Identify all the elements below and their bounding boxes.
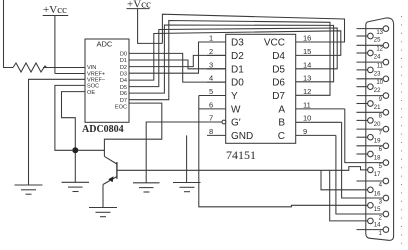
svg-text:4: 4 <box>209 74 213 83</box>
DB25 connector shell <box>366 18 394 240</box>
svg-text:D0: D0 <box>120 52 127 58</box>
wire EOC to transistor collector <box>104 103 161 156</box>
node junction dot <box>72 147 78 153</box>
wire D6 over top to 74151 pin13 <box>129 25 334 93</box>
pin16-9 stub lines <box>296 109 345 135</box>
svg-text:17: 17 <box>374 172 381 178</box>
transistor Q1 PNP <box>103 156 117 184</box>
svg-text:W: W <box>231 104 241 115</box>
svg-text:13: 13 <box>303 74 311 83</box>
svg-text:9: 9 <box>379 97 383 103</box>
svg-text:24: 24 <box>374 55 381 61</box>
svg-text:VREF+: VREF+ <box>87 71 105 77</box>
svg-text:9: 9 <box>303 127 307 136</box>
ground G4 <box>133 183 160 192</box>
svg-text:D2: D2 <box>120 65 127 71</box>
wire emitter to ground <box>102 185 104 208</box>
wire D2 to 74151 pin2 <box>129 55 226 66</box>
svg-text:1: 1 <box>209 34 213 43</box>
svg-text:SOC: SOC <box>87 84 99 90</box>
wire branch to connector pin16 <box>321 170 368 190</box>
wire B pin10 to connector pin3 <box>342 122 384 198</box>
svg-text:15: 15 <box>374 207 381 213</box>
svg-text:D6: D6 <box>272 78 285 89</box>
74151 left inside labels <box>231 38 253 142</box>
svg-text:+Vcc: +Vcc <box>127 0 151 11</box>
wire D1 to 74151 pin3 <box>129 60 226 69</box>
ground G3 <box>89 208 117 217</box>
connector pin leads short <box>357 29 384 230</box>
svg-text:A: A <box>278 104 285 115</box>
wire C pin9 to connector pin2 <box>336 135 383 214</box>
wire Vcc1 to VREF+ <box>55 73 85 75</box>
svg-text:25: 25 <box>374 38 381 44</box>
svg-text:11: 11 <box>303 100 311 109</box>
connector outer pin circles 13..1 <box>383 26 389 233</box>
svg-text:15: 15 <box>303 47 311 56</box>
svg-text:16: 16 <box>303 34 311 43</box>
svg-text:7: 7 <box>209 114 213 123</box>
svg-text:D1: D1 <box>231 64 244 75</box>
svg-text:D3: D3 <box>231 38 244 49</box>
svg-text:VIN: VIN <box>87 65 96 71</box>
svg-text:C: C <box>278 131 285 142</box>
svg-text:10: 10 <box>376 80 383 86</box>
wire resistor to VIN <box>43 67 85 69</box>
svg-text:D4: D4 <box>120 78 127 84</box>
svg-text:D1: D1 <box>120 58 127 64</box>
wire left-edge to resistor <box>4 0 14 68</box>
svg-text:6: 6 <box>209 100 213 109</box>
svg-text:1: 1 <box>379 231 383 237</box>
svg-text:D5: D5 <box>272 64 285 75</box>
svg-text:19: 19 <box>374 139 381 145</box>
svg-text:5: 5 <box>209 87 213 96</box>
+Vcc supply 1 <box>43 16 68 74</box>
svg-text:16: 16 <box>374 191 381 197</box>
svg-text:13: 13 <box>376 30 383 36</box>
svg-text:ADC: ADC <box>97 40 113 49</box>
wire G-bar pin7 to ground <box>146 122 223 183</box>
svg-text:VCC: VCC <box>264 38 285 49</box>
svg-text:22: 22 <box>374 88 381 94</box>
svg-text:G′: G′ <box>231 118 241 129</box>
svg-text:2: 2 <box>209 47 213 56</box>
wire D0 to 74151 pin4 <box>129 53 226 82</box>
svg-text:10: 10 <box>303 114 311 123</box>
svg-text:5: 5 <box>379 164 383 170</box>
svg-text:ADC0804: ADC0804 <box>82 124 124 135</box>
left pin numbers 1-8 <box>209 34 213 136</box>
wire SOC <box>55 85 85 150</box>
svg-text:GND: GND <box>231 131 253 142</box>
wire Vcc2 over top to 74151 pin16 VCC <box>162 14 344 43</box>
svg-text:D6: D6 <box>120 91 127 97</box>
svg-text:23: 23 <box>374 71 381 77</box>
svg-text:2: 2 <box>379 215 383 221</box>
svg-text:14: 14 <box>303 60 311 69</box>
wire D7 over top to 74151 pin12 <box>129 21 330 100</box>
wire OE <box>62 92 86 183</box>
connector inner pin numbers <box>374 38 381 229</box>
ground G2 <box>62 182 90 191</box>
svg-text:14: 14 <box>374 222 381 228</box>
svg-text:D5: D5 <box>120 85 127 91</box>
svg-text:D7: D7 <box>272 91 285 102</box>
wire branch to connector pin14 <box>330 170 368 221</box>
svg-text:21: 21 <box>374 105 381 111</box>
svg-text:74151: 74151 <box>226 148 256 162</box>
ground G1 <box>15 185 43 194</box>
connector outer pin numbers <box>376 30 383 237</box>
right pin numbers 16-9 <box>303 34 311 136</box>
ground G5 <box>173 183 201 192</box>
wire D4 over top to 74151 pin15 <box>129 31 341 80</box>
svg-text:6: 6 <box>379 147 383 153</box>
wire VREF- to ground <box>29 79 86 185</box>
svg-text:EOC: EOC <box>115 105 127 111</box>
wire Y/W output to connector pin15 <box>199 96 368 207</box>
svg-text:+Vcc: +Vcc <box>43 4 67 16</box>
+Vcc supply 2 <box>127 9 163 44</box>
pin1-8 stub underlines <box>199 42 226 135</box>
svg-text:12: 12 <box>303 87 311 96</box>
svg-text:3: 3 <box>379 199 383 205</box>
ADC right pin labels <box>115 52 127 111</box>
ADC left pin labels <box>87 65 105 96</box>
svg-text:8: 8 <box>379 114 383 120</box>
svg-text:Y: Y <box>231 91 238 102</box>
wire junction to transistor collector <box>75 149 104 151</box>
pin 7 inverter bubble <box>222 120 226 124</box>
svg-text:OE: OE <box>87 90 95 96</box>
wire GND pin8 to ground <box>186 135 188 182</box>
svg-text:8: 8 <box>209 127 213 136</box>
svg-text:D3: D3 <box>120 71 127 77</box>
74151 chip U2 box <box>226 34 296 143</box>
wire D3 to 74151 pin1 <box>129 42 226 73</box>
resistor R1 <box>13 63 47 72</box>
wire A pin11 to connector pin5 <box>345 109 383 163</box>
svg-text:D7: D7 <box>120 98 127 104</box>
svg-text:11: 11 <box>377 64 384 70</box>
74151 right inside labels <box>264 38 286 142</box>
ADC0804 chip U1 box <box>85 39 129 122</box>
svg-text:3: 3 <box>209 60 213 69</box>
svg-text:18: 18 <box>374 156 381 162</box>
svg-text:D2: D2 <box>231 51 244 62</box>
svg-text:B: B <box>278 118 285 129</box>
connector mounting dotted edge <box>401 16 403 248</box>
wire D5 over top to 74151 pin14 <box>129 28 337 87</box>
svg-text:D4: D4 <box>272 51 285 62</box>
wire transistor base to connector pin17 <box>117 167 368 171</box>
svg-text:20: 20 <box>374 122 381 128</box>
connector inner pin circles 25..14 <box>368 33 374 224</box>
svg-text:D0: D0 <box>231 78 244 89</box>
svg-text:7: 7 <box>379 131 383 137</box>
svg-text:4: 4 <box>379 182 383 188</box>
svg-text:12: 12 <box>376 47 383 53</box>
